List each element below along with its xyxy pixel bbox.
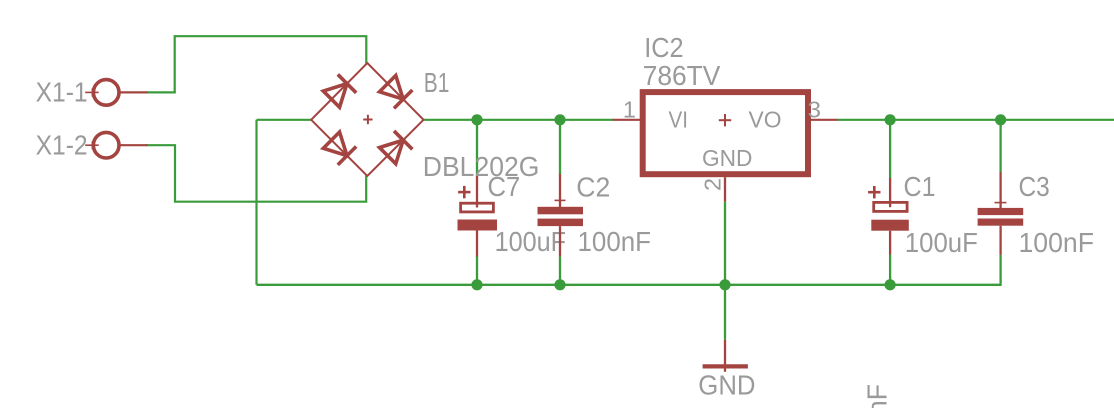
IC2 plus mark — [719, 114, 731, 126]
svg-text:3: 3 — [808, 96, 822, 122]
wire: X1-1 up and across to bridge top — [175, 36, 367, 92]
junction at C1 top — [885, 114, 896, 125]
junction at C7 bottom — [471, 279, 482, 290]
diode D2 upper-right — [378, 74, 412, 108]
wire: C1 bottom drop — [889, 255, 891, 285]
svg-text:100uF: 100uF — [495, 226, 566, 257]
svg-text:C1: C1 — [904, 171, 936, 202]
capacitor C7 (polarized) — [458, 176, 498, 257]
svg-text:100nF: 100nF — [1019, 227, 1095, 258]
svg-text:786TV: 786TV — [643, 60, 721, 91]
svg-text:B1: B1 — [424, 67, 450, 98]
capacitor C1 (polarized) — [871, 178, 909, 255]
IC2 pin 3 stub — [811, 119, 838, 121]
wire: X1-2 down and across to bridge bottom — [175, 145, 366, 202]
wire: C3 top drop — [999, 120, 1001, 173]
svg-text:GND: GND — [702, 145, 752, 171]
svg-text:2: 2 — [699, 178, 725, 191]
wire: left bus vertical down — [255, 120, 257, 285]
diode D3 lower-left — [322, 131, 356, 165]
junction at C1 bottom — [885, 279, 896, 290]
svg-text:DBL202G: DBL202G — [423, 151, 540, 182]
wire: bridge left corner to left bus — [257, 119, 312, 121]
connector pad X1-1 — [85, 80, 147, 106]
wire: IC pin 3 to right edge — [837, 119, 1114, 121]
C1 plus mark — [868, 186, 880, 198]
wire: X1-1 pin to corner — [146, 91, 176, 93]
junction at C7 top — [471, 114, 482, 125]
svg-text:100nF: 100nF — [862, 384, 893, 408]
svg-text:100uF: 100uF — [905, 227, 978, 258]
wire: bridge right corner to IC pin 1 — [424, 119, 614, 121]
wire: X1-2 pin to corner — [146, 144, 176, 146]
wire: C7 bottom drop — [476, 256, 478, 285]
svg-text:GND: GND — [698, 369, 755, 400]
svg-text:1: 1 — [623, 96, 636, 122]
bridge plus mark — [363, 115, 372, 124]
svg-text:X1-1: X1-1 — [36, 77, 88, 108]
junction at C2 bottom — [554, 279, 565, 290]
svg-text:C7: C7 — [488, 171, 521, 202]
IC2 pin 1 stub — [613, 119, 641, 121]
voltage regulator IC2 box — [643, 92, 808, 174]
IC2 pin 2 stub — [724, 177, 726, 202]
wire: C1 top drop — [889, 120, 891, 179]
svg-text:C3: C3 — [1019, 171, 1050, 202]
svg-text:IC2: IC2 — [644, 32, 683, 63]
wire: C2 bottom drop — [559, 256, 561, 284]
wire: C7 top drop — [476, 120, 478, 177]
bridge rectifier B1 diamond body — [311, 63, 423, 176]
wire: C3 bottom drop — [999, 255, 1001, 286]
capacitor C2 — [538, 174, 584, 256]
wire: ground rail to GND symbol — [724, 285, 726, 340]
wire: bottom ground rail — [257, 284, 1001, 286]
junction at C3 top — [995, 114, 1006, 125]
svg-text:VO: VO — [749, 107, 782, 133]
svg-text:VI: VI — [669, 107, 689, 133]
svg-text:100nF: 100nF — [578, 226, 652, 257]
diode D4 lower-right — [378, 131, 412, 165]
ground symbol — [703, 340, 748, 372]
svg-text:X1-2: X1-2 — [36, 129, 88, 160]
C7 plus mark — [458, 186, 470, 198]
capacitor C3 — [978, 172, 1024, 255]
junction at C2 top — [554, 114, 565, 125]
wire: C2 top drop — [559, 120, 561, 175]
wire: IC pin 2 to ground rail — [724, 202, 726, 285]
diode D1 upper-left — [322, 74, 356, 108]
svg-text:C2: C2 — [576, 172, 610, 203]
connector pad X1-2 — [85, 132, 147, 158]
junction at GND rail — [719, 279, 730, 290]
